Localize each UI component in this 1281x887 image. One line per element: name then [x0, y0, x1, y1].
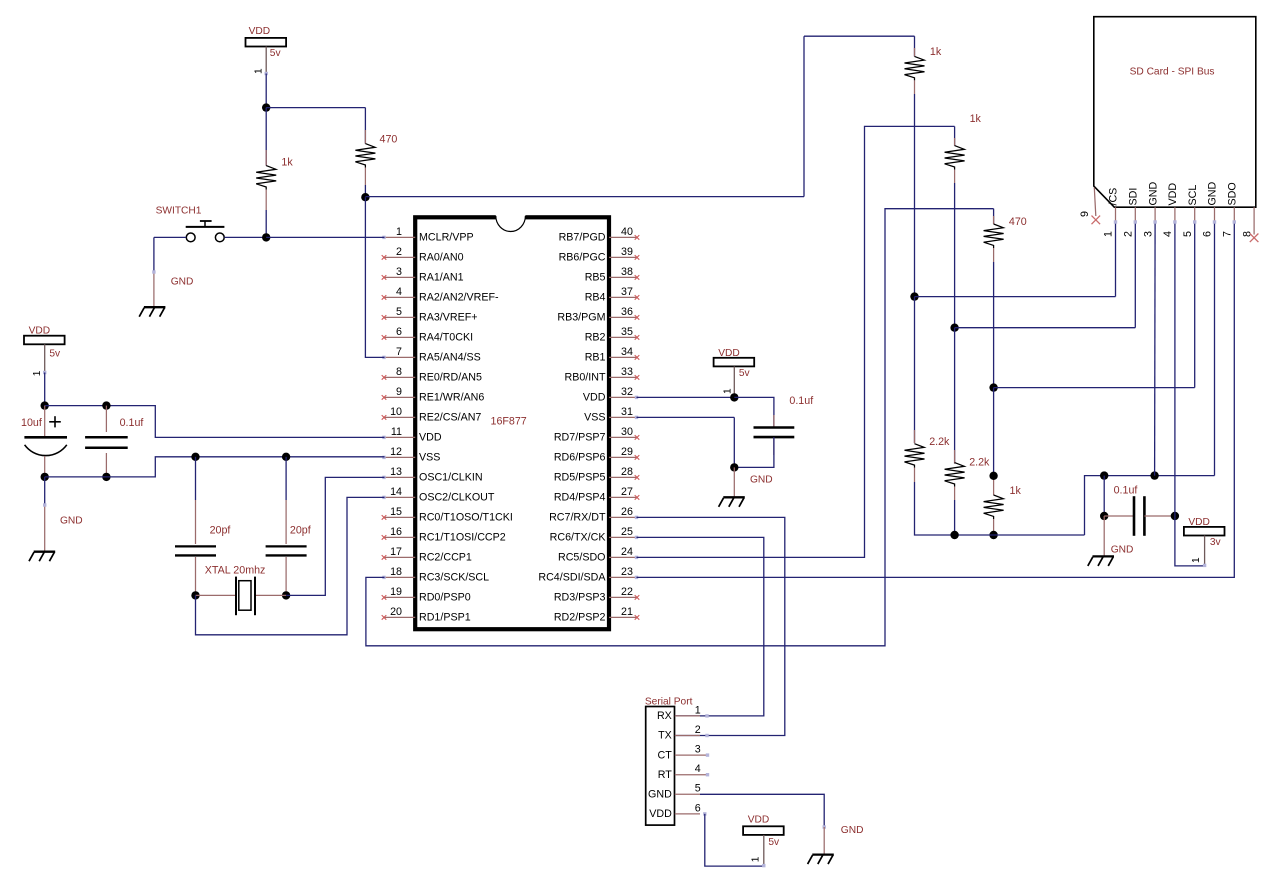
svg-text:RD0/PSP0: RD0/PSP0 [419, 592, 471, 604]
svg-text:30: 30 [621, 426, 633, 438]
wire riser to C7 left [1103, 476, 1105, 516]
svg-text:13: 13 [390, 466, 402, 478]
label Serial Port [645, 696, 693, 707]
node CS junction [910, 292, 918, 300]
svg-text:38: 38 [621, 266, 633, 278]
svg-text:29: 29 [621, 446, 633, 458]
connector J2 pin 1 label /CS [1108, 188, 1120, 206]
svg-text:2: 2 [396, 246, 402, 258]
svg-text:RD6/PSP6: RD6/PSP6 [554, 452, 606, 464]
svg-text:RB4: RB4 [585, 292, 606, 304]
connector J2 SD Card box [1094, 17, 1256, 208]
connector J2 pin 1 stub [1103, 207, 1116, 237]
wire VDD row to jog [45, 406, 385, 438]
svg-text:36: 36 [621, 306, 633, 318]
node R7 top junction [989, 472, 997, 480]
svg-text:0.1uf: 0.1uf [1114, 485, 1138, 497]
node R7 bottom junction [989, 531, 997, 539]
switch GND pin wire [152, 270, 155, 307]
label SD Card - SPI Bus [1130, 67, 1215, 78]
svg-text:SDI: SDI [1128, 188, 1140, 206]
svg-text:RC3/SCK/SCL: RC3/SCK/SCL [419, 572, 489, 584]
IC U1 pin 18 (RC3/SCK/SCL) stub+label [382, 566, 489, 584]
connector J1 pin 3 label CT [658, 744, 701, 762]
svg-text:VDD: VDD [649, 808, 672, 820]
svg-text:470: 470 [380, 134, 398, 146]
svg-text:1: 1 [1191, 557, 1202, 563]
IC U1 pin 6 (RA4/T0CKI) stub+label [382, 326, 473, 344]
resistor R7 1k (SCL pulldown) [984, 388, 1022, 535]
svg-text:RE2/CS/AN7: RE2/CS/AN7 [419, 412, 481, 424]
IC U1 label 16F877 [491, 415, 527, 427]
IC U1 pin 22 (RD3/PSP3) stub+label [554, 586, 639, 604]
svg-text:4: 4 [1162, 231, 1174, 237]
IC U1 pin 2 (RA0/AN0) stub+label [382, 246, 464, 264]
connector J2 pin 5 stub [1182, 207, 1195, 237]
wire SD pin1 /CS drop [1114, 220, 1117, 296]
svg-text:18: 18 [390, 566, 402, 578]
wire top to R3 1k [804, 35, 915, 37]
wire serial GND run [700, 794, 826, 828]
svg-text:RC1/T1OSI/CCP2: RC1/T1OSI/CCP2 [419, 532, 506, 544]
node 0.1uf top junction [102, 401, 110, 409]
svg-text:RC4/SDI/SDA: RC4/SDI/SDA [538, 572, 606, 584]
svg-text:RD3/PSP3: RD3/PSP3 [554, 592, 606, 604]
IC U1 pin 19 (RD0/PSP0) stub+label [382, 586, 471, 604]
IC U1 pin 29 (RD6/PSP6) stub+label [554, 446, 639, 464]
IC U1 top notch [496, 214, 526, 231]
node VSS pin31 junction [730, 463, 738, 471]
svg-text:26: 26 [621, 506, 633, 518]
switch SW1 pushbutton [186, 221, 225, 242]
IC U1 pin 21 (RD2/PSP2) stub+label [554, 606, 639, 624]
svg-text:19: 19 [390, 586, 402, 598]
capacitor C4 20pf [266, 457, 311, 596]
IC U1 pin 37 (RB4) stub+label [585, 286, 640, 304]
svg-text:7: 7 [396, 346, 402, 358]
svg-text:6: 6 [695, 802, 701, 814]
connector J1 pin2 stub [675, 734, 709, 737]
svg-text:3: 3 [1142, 231, 1154, 237]
label GND (left) [60, 515, 83, 526]
wire SD pin5 SCL drop [1193, 220, 1196, 387]
svg-text:RA1/AN1: RA1/AN1 [419, 272, 464, 284]
wire SD pin2 SDI drop [1134, 220, 1137, 327]
node VDD junction (top left) [262, 103, 270, 111]
IC U1 pin 25 (RC6/TX/CK) stub+label [550, 526, 639, 544]
IC U1 pin 5 (RA3/VREF+) stub+label [382, 306, 478, 324]
svg-text:TX: TX [658, 730, 672, 742]
svg-text:3: 3 [396, 266, 402, 278]
wire switch right to MCLR junction [224, 236, 266, 238]
node MCLR junction [262, 233, 270, 241]
svg-text:32: 32 [621, 386, 633, 398]
svg-text:25: 25 [621, 526, 633, 538]
svg-text:VDD: VDD [29, 326, 51, 337]
node 20pf C3 top junction [191, 453, 199, 461]
wire C7 right to VDD 3v [1175, 516, 1205, 566]
IC U1 pin 38 (RB5) stub+label [585, 266, 640, 284]
svg-text:2.2k: 2.2k [969, 456, 990, 468]
node R1 bottom junction [361, 193, 369, 201]
svg-text:2.2k: 2.2k [929, 436, 950, 448]
power symbol VDD (serial) 5v [743, 815, 784, 868]
svg-text:0.1uf: 0.1uf [789, 395, 813, 407]
svg-text:0.1uf: 0.1uf [120, 417, 144, 429]
svg-text:37: 37 [621, 286, 633, 298]
svg-text:8: 8 [396, 366, 402, 378]
connector J2 pin 7 label SDO [1227, 182, 1239, 205]
wire VSS pin 31 [637, 417, 735, 467]
node 20pf C4 top junction [282, 453, 290, 461]
wire 10uf- to ground [43, 477, 46, 551]
svg-text:1k: 1k [1010, 485, 1022, 497]
crystal X1 XTAL 20mhz [196, 565, 287, 616]
ground symbol (SD) [1088, 556, 1114, 566]
svg-text:1: 1 [751, 856, 762, 862]
node C7 right junction [1171, 512, 1179, 520]
svg-text:RA0/AN0: RA0/AN0 [419, 252, 464, 264]
connector J2 pin 4 label VDD [1167, 183, 1179, 206]
svg-text:RE0/RD/AN5: RE0/RD/AN5 [419, 372, 482, 384]
node crystal right junction [282, 591, 290, 599]
connector J2 pin 2 stub [1123, 207, 1136, 237]
svg-text:4: 4 [396, 286, 402, 298]
svg-text:1: 1 [32, 370, 43, 376]
svg-text:GND: GND [1111, 545, 1134, 556]
svg-text:RC2/CCP1: RC2/CCP1 [419, 552, 472, 564]
IC U1 pin 24 (RC5/SDO) stub+label [558, 546, 638, 564]
wire crystal left to OSC2 pin 14 [196, 497, 385, 634]
svg-text:XTAL 20mhz: XTAL 20mhz [205, 565, 266, 577]
svg-text:GND: GND [1147, 181, 1159, 205]
connector J2 pin 6 stub [1202, 207, 1215, 237]
svg-text:VDD: VDD [718, 348, 740, 359]
wire RC7/RX pin 26 to serial TX [637, 517, 785, 735]
svg-text:1k: 1k [970, 113, 982, 125]
svg-text:RC0/T1OSO/T1CKI: RC0/T1OSO/T1CKI [419, 512, 513, 524]
wire serial VDD run [705, 814, 764, 866]
wire RC5/SDO pin 24 to riser [637, 126, 955, 557]
label GND (SD) [1111, 545, 1134, 556]
connector J1 Serial Port box [646, 707, 675, 826]
label GND (serial) [841, 825, 864, 836]
IC U1 pin 8 (RE0/RD/AN5) stub+label [382, 366, 482, 384]
wire SD pin4 VDD drop [1173, 220, 1176, 516]
node SD pin3 GND junction [1150, 471, 1158, 479]
wire SCL to SD pin 5 [994, 387, 1195, 389]
resistor R1 470 (RA5 net) [355, 108, 397, 198]
svg-text:9: 9 [1079, 211, 1091, 217]
IC U1 pin 33 (RB0/INT) stub+label [565, 366, 640, 384]
ground symbol (switch) [139, 307, 165, 317]
node cap C7 left riser junction [1100, 471, 1108, 479]
connector J1 pin5 GND stub [675, 793, 700, 795]
svg-text:RA2/AN2/VREF-: RA2/AN2/VREF- [419, 292, 499, 304]
IC U1 pin 3 (RA1/AN1) stub+label [382, 266, 464, 284]
svg-text:5v: 5v [49, 348, 61, 359]
svg-text:SD Card - SPI Bus: SD Card - SPI Bus [1130, 67, 1215, 78]
svg-text:15: 15 [390, 506, 402, 518]
svg-text:24: 24 [621, 546, 633, 558]
IC U1 pin 31 (VSS) stub+label [584, 406, 638, 424]
wire crystal right to OSC1 pin 13 [286, 477, 384, 595]
svg-text:RD4/PSP4: RD4/PSP4 [554, 492, 606, 504]
IC U1 pin 1 (MCLR/VPP) stub+label [382, 226, 473, 244]
IC U1 pin 16 (RC1/T1OSI/CCP2) stub+label [382, 526, 506, 544]
wire riser x804 up [803, 36, 805, 196]
svg-text:3: 3 [695, 744, 701, 756]
node VDD pin32 junction [730, 393, 738, 401]
svg-text:6: 6 [396, 326, 402, 338]
label GND (VSS decoupling) [750, 475, 773, 486]
power symbol VDD (left) 5v [24, 326, 65, 406]
svg-text:GND: GND [841, 825, 864, 836]
switch SWITCH1 label [156, 205, 202, 216]
capacitor C7 0.1uf (SD supply) [1104, 485, 1175, 536]
connector J1 pin 2 label TX [658, 724, 701, 742]
IC U1 pin 28 (RD5/PSP5) stub+label [554, 466, 639, 484]
node SDI divider bottom junction [950, 531, 958, 539]
connector J1 pin3 CT stub (NC) [675, 753, 709, 756]
IC U1 pin 20 (RD1/PSP1) stub+label [382, 606, 471, 624]
ground symbol (left) [29, 552, 55, 562]
svg-text:RA3/VREF+: RA3/VREF+ [419, 312, 478, 324]
svg-text:11: 11 [391, 426, 402, 438]
svg-text:VDD: VDD [1167, 183, 1179, 206]
svg-text:RD2/PSP2: RD2/PSP2 [554, 612, 606, 624]
svg-text:6: 6 [1202, 231, 1214, 237]
node C7 left junction [1100, 512, 1108, 520]
connector J1 pin 6 label VDD [649, 802, 701, 820]
resistor R8 2.2k (SDI divider bottom) [945, 328, 990, 535]
svg-text:28: 28 [621, 466, 633, 478]
svg-text:5v: 5v [739, 368, 751, 379]
svg-text:RB0/INT: RB0/INT [565, 372, 606, 384]
svg-text:21: 21 [621, 606, 633, 618]
IC U1 pin 15 (RC0/T1OSO/T1CKI) stub+label [382, 506, 513, 524]
connector J2 pin 4 stub [1162, 207, 1175, 237]
connector J2 pin 7 stub [1222, 207, 1235, 237]
connector J1 pin 5 label GND [648, 783, 701, 801]
svg-text:5: 5 [396, 306, 402, 318]
svg-text:9: 9 [396, 386, 402, 398]
wire R1 junction to RA5/AN4/SS pin 7 [365, 197, 384, 357]
IC U1 pin 12 (VSS) stub+label [382, 446, 440, 464]
IC U1 pin 39 (RB6/PGC) stub+label [559, 246, 640, 264]
resistor R3 1k (CS divider top) [905, 36, 942, 296]
svg-text:RA5/AN4/SS: RA5/AN4/SS [419, 352, 481, 364]
IC U1 pin 30 (RD7/PSP7) stub+label [554, 426, 639, 444]
ground symbol (VSS decoupling) [719, 497, 745, 507]
svg-text:VSS: VSS [584, 412, 605, 424]
svg-text:RB5: RB5 [585, 272, 606, 284]
svg-text:OSC2/CLKOUT: OSC2/CLKOUT [419, 492, 495, 504]
svg-text:35: 35 [621, 326, 633, 338]
svg-text:4: 4 [695, 763, 701, 775]
wire RC3/SCK pin 18 run below chip [366, 209, 994, 646]
connector J1 pin 1 label RX [657, 704, 701, 722]
connector J1 pin6 VDD stub [675, 812, 707, 815]
svg-text:470: 470 [1009, 216, 1027, 228]
svg-text:1: 1 [695, 704, 701, 716]
svg-text:1: 1 [254, 68, 265, 74]
svg-text:5v: 5v [270, 48, 282, 59]
svg-text:5: 5 [1182, 231, 1194, 237]
svg-text:RB6/PGC: RB6/PGC [559, 252, 606, 264]
svg-text:RD1/PSP1: RD1/PSP1 [419, 612, 471, 624]
connector J2 pin 8 stub [1241, 207, 1258, 242]
svg-text:1: 1 [723, 388, 734, 394]
svg-text:RE1/WR/AN6: RE1/WR/AN6 [419, 392, 484, 404]
node 10uf bottom junction [41, 473, 49, 481]
wire SD pin6 GND drop [1213, 220, 1216, 475]
ground symbol (serial) [808, 855, 834, 865]
svg-text:10uf: 10uf [21, 417, 42, 429]
IC U1 pin 23 (RC4/SDI/SDA) stub+label [538, 566, 638, 584]
wire C5 bottom to VSS junction [734, 437, 774, 467]
svg-text:OSC1/CLKIN: OSC1/CLKIN [419, 472, 483, 484]
svg-text:27: 27 [621, 486, 633, 498]
svg-text:SDO: SDO [1227, 182, 1239, 205]
connector J2 pin 2 label SDI [1128, 188, 1140, 206]
power symbol VDD 3v [1184, 517, 1225, 567]
wire VDD junction to R1 470 top [266, 107, 365, 109]
wire SD pin3 GND drop [1153, 220, 1156, 475]
svg-text:VSS: VSS [419, 452, 440, 464]
svg-text:20pf: 20pf [210, 525, 231, 537]
wire ground row to VSS jog [45, 457, 385, 477]
IC U1 pin 26 (RC7/RX/DT) stub+label [549, 506, 638, 524]
capacitor C3 20pf [175, 457, 230, 596]
connector J2 pin 3 stub [1142, 207, 1155, 237]
wire junction to C5 top [734, 397, 774, 427]
label GND (switch) [171, 276, 194, 287]
svg-text:RC5/SDO: RC5/SDO [558, 552, 606, 564]
node SDI junction [950, 324, 958, 332]
svg-text:RD7/PSP7: RD7/PSP7 [554, 432, 606, 444]
svg-text:VDD: VDD [249, 26, 271, 37]
svg-text:12: 12 [390, 446, 402, 458]
svg-text:10: 10 [390, 406, 402, 418]
wire C7 left to ground [1103, 516, 1105, 556]
wire RC6/TX pin 25 to serial RX [637, 537, 764, 716]
svg-text:VDD: VDD [583, 392, 606, 404]
svg-text:7: 7 [1222, 231, 1234, 237]
node 0.1uf bottom junction [102, 473, 110, 481]
wire SDI to SD pin 2 [955, 327, 1136, 329]
resistor R2 1k (MCLR pullup) [256, 108, 293, 238]
svg-text:39: 39 [621, 246, 633, 258]
IC U1 pin 14 (OSC2/CLKOUT) stub+label [382, 486, 495, 504]
svg-text:GND: GND [750, 475, 773, 486]
connector J1 pin 4 label RT [658, 763, 701, 781]
svg-text:RB3/PGM: RB3/PGM [557, 312, 605, 324]
svg-text:Serial Port: Serial Port [645, 696, 693, 707]
svg-text:RC7/RX/DT: RC7/RX/DT [549, 512, 606, 524]
wire serial GND pin drop [823, 827, 825, 854]
IC U1 pin 36 (RB3/PGM) stub+label [557, 306, 639, 324]
svg-text:1k: 1k [281, 156, 293, 168]
svg-text:5: 5 [695, 783, 701, 795]
capacitor C1 10uf (electrolytic) [21, 406, 67, 477]
svg-text:GND: GND [171, 276, 194, 287]
svg-text:GND: GND [1207, 181, 1219, 205]
IC U1 pin 9 (RE1/WR/AN6) stub+label [382, 386, 485, 404]
wire ground row jog [1085, 476, 1215, 535]
IC U1 pin 17 (RC2/CCP1) stub+label [382, 546, 472, 564]
svg-text:SCL: SCL [1187, 185, 1199, 206]
connector J1 pin4 RT stub (NC) [675, 773, 709, 776]
svg-text:GND: GND [60, 515, 83, 526]
IC U1 pin 34 (RB1) stub+label [585, 346, 640, 364]
resistor R4 470 (SCL series) [984, 209, 1027, 388]
svg-text:MCLR/VPP: MCLR/VPP [419, 232, 474, 244]
wire VSS junction to ground [733, 467, 735, 497]
svg-text:GND: GND [648, 789, 672, 801]
resistor R6 1k (SDI divider top) [945, 113, 982, 328]
power symbol VDD (center) 5v [714, 348, 755, 398]
IC U1 pin 40 (RB7/PGD) stub+label [559, 226, 640, 244]
capacitor C5 0.1uf (VDD decoupling) [754, 395, 814, 455]
svg-text:RB7/PGD: RB7/PGD [559, 232, 606, 244]
IC U1 PIC16F877 body [415, 217, 609, 629]
svg-text:23: 23 [621, 566, 633, 578]
svg-text:RB1: RB1 [585, 352, 606, 364]
svg-text:2: 2 [695, 724, 701, 736]
svg-text:2: 2 [1123, 231, 1135, 237]
svg-text:RT: RT [658, 769, 673, 781]
node crystal left junction [191, 591, 199, 599]
connector J2 pin 9 stub (bevel, NC) [1079, 188, 1100, 225]
svg-text:5v: 5v [768, 837, 780, 848]
svg-text:40: 40 [621, 226, 633, 238]
IC U1 pin 10 (RE2/CS/AN7) stub+label [382, 406, 482, 424]
connector J2 pin 5 label SCL [1187, 185, 1199, 206]
IC U1 pin 4 (RA2/AN2/VREF-) stub+label [382, 286, 499, 304]
resistor R5 2.2k (CS divider bottom) [905, 297, 1085, 535]
node VDD left junction [41, 401, 49, 409]
svg-text:RD5/PSP5: RD5/PSP5 [554, 472, 606, 484]
svg-text:/CS: /CS [1108, 188, 1120, 206]
svg-text:20pf: 20pf [290, 525, 311, 537]
svg-text:CT: CT [658, 749, 673, 761]
svg-text:1: 1 [1103, 231, 1115, 237]
svg-text:SWITCH1: SWITCH1 [156, 205, 202, 216]
svg-text:RX: RX [657, 710, 672, 722]
node SCL junction [989, 383, 997, 391]
connector J2 pin 6 label GND [1207, 181, 1219, 205]
svg-text:22: 22 [621, 586, 633, 598]
svg-text:20: 20 [390, 606, 402, 618]
wire R1 junction east to x804 riser [365, 196, 804, 198]
svg-text:14: 14 [390, 486, 402, 498]
svg-text:16F877: 16F877 [491, 415, 527, 427]
wire SD pin7 SDO drop to RC4 pin 23 [637, 220, 1237, 577]
IC U1 pin 27 (RD4/PSP4) stub+label [554, 486, 639, 504]
IC U1 pin 13 (OSC1/CLKIN) stub+label [382, 466, 482, 484]
svg-text:VDD: VDD [748, 815, 770, 826]
IC U1 pin 35 (RB2) stub+label [585, 326, 640, 344]
svg-text:31: 31 [621, 406, 633, 418]
svg-text:1k: 1k [930, 46, 942, 58]
svg-text:RB2: RB2 [585, 332, 606, 344]
wire VDD pin 32 [637, 396, 735, 398]
svg-text:1: 1 [396, 226, 402, 238]
connector J2 pin 3 label GND [1147, 181, 1159, 205]
svg-text:16: 16 [390, 526, 402, 538]
IC U1 pin 11 (VDD) stub+label [382, 426, 442, 444]
